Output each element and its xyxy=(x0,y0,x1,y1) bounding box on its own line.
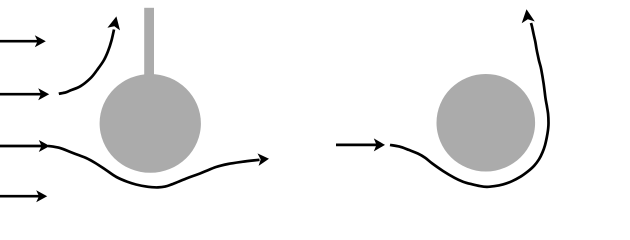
arrowhead wind arrow 2 xyxy=(38,88,49,100)
left ball xyxy=(100,74,201,173)
arrowhead wind arrow 4 xyxy=(36,190,47,202)
right ball xyxy=(437,74,536,172)
upper deflected streamline (curves up past stick) xyxy=(59,30,114,94)
right diagram inflow arrow shaft xyxy=(336,144,377,147)
lower streamline under left ball xyxy=(48,146,260,188)
wind arrow 1 shaft xyxy=(0,40,38,43)
wind arrow 4 shaft xyxy=(0,195,40,198)
arrowhead upper streamline xyxy=(107,16,120,30)
arrowhead lower streamline xyxy=(258,153,270,166)
wind arrow 3 shaft xyxy=(0,145,42,148)
arrowhead wind arrow 1 xyxy=(35,35,46,47)
arrowhead right inflow xyxy=(374,138,385,151)
arrowhead wind arrow 3 xyxy=(39,140,50,152)
wind arrow 2 shaft xyxy=(0,93,42,96)
arrowhead jet exit top xyxy=(522,9,535,23)
jet streamline wrapping around right ball xyxy=(390,23,549,187)
stick (left ball support rod) xyxy=(144,8,154,83)
